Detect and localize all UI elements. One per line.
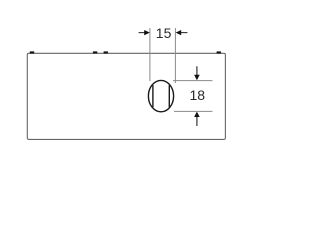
- svg-text:15: 15: [156, 25, 172, 41]
- clip tab mark 1 (top edge left): [30, 51, 34, 53]
- clip tab mark 2 (top edge middle-left): [93, 51, 97, 53]
- dim 15 left arrowhead: [144, 30, 150, 35]
- pipe right edge chord: [168, 85, 170, 107]
- dim 18 bottom arrow tail: [196, 116, 198, 126]
- extension line bottom of dim 18: [174, 110, 212, 112]
- clip tab mark 3 (top edge middle-right): [104, 51, 108, 53]
- oval hole (ellipse): [148, 80, 173, 111]
- extension line top of dim 18: [173, 80, 212, 82]
- pipe left edge chord: [152, 85, 154, 107]
- dim 15 right arrowhead: [176, 30, 182, 35]
- clip tab mark 4 (top edge right): [217, 51, 221, 53]
- dim 15 left arrow tail: [139, 32, 146, 34]
- dim 18 top arrow tail: [196, 66, 198, 75]
- svg-text:18: 18: [190, 87, 206, 103]
- extension line left of dim 15: [149, 28, 151, 81]
- dim 18 bottom arrowhead: [194, 112, 200, 117]
- panel outline rectangle: [27, 53, 225, 139]
- dim 15 right arrow tail: [180, 32, 187, 34]
- dim 18 top arrowhead: [194, 75, 200, 81]
- extension line right of dim 15: [174, 28, 176, 83]
